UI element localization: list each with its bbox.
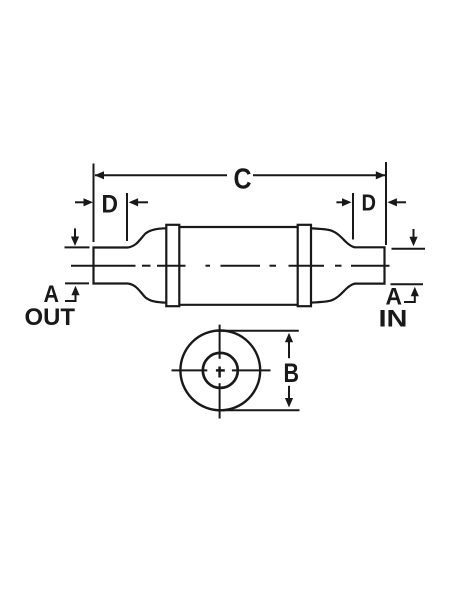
- B dimension lower segment with down arrow: [288, 386, 290, 401]
- front view inner circle (pipe): [203, 353, 238, 388]
- muffler left seam band: [166, 225, 179, 306]
- dimension D right: outside arrow pointing left: [394, 201, 406, 203]
- B bottom tangent line: [218, 409, 300, 411]
- muffler right end-cap cone bottom: [311, 284, 355, 303]
- dimension D left: outside arrow pointing right: [75, 201, 86, 203]
- A-out top extension line: [65, 246, 90, 248]
- A-in down arrow: [413, 229, 415, 240]
- svg-text:IN: IN: [379, 306, 408, 333]
- muffler body top line: [179, 226, 297, 228]
- dimension C arrow right: [376, 171, 386, 179]
- dimension D left: extension line: [126, 193, 128, 241]
- front view outer circle: [180, 331, 260, 411]
- centerline dash-dot of side view: [71, 265, 136, 267]
- dimension D left: outside arrow pointing left: [135, 201, 148, 203]
- front view vertical centerline: [219, 325, 221, 359]
- A-out bottom extension line: [65, 282, 89, 284]
- muffler left end-cap cone bottom: [128, 284, 166, 303]
- A-in bottom extension line: [391, 283, 424, 285]
- A-in top extension line: [392, 248, 426, 250]
- dimension C line right segment: [253, 174, 385, 176]
- muffler right seam band: [298, 225, 311, 306]
- A-in up arrow leader: [404, 293, 415, 302]
- muffler right pipe outline: [354, 247, 385, 283]
- front view horizontal centerline: [172, 369, 208, 371]
- A-out up arrow leader: [65, 292, 76, 301]
- dimension D right: extension line: [352, 193, 354, 240]
- muffler left end-cap cone top: [128, 228, 166, 247]
- muffler body bottom line: [179, 304, 297, 306]
- A-out down arrow: [74, 228, 76, 239]
- svg-text:OUT: OUT: [25, 304, 76, 331]
- B top tangent line: [218, 330, 299, 332]
- extension line right (C datum): [385, 162, 387, 245]
- muffler left pipe outline: [94, 248, 129, 284]
- svg-text:C: C: [234, 164, 252, 196]
- dimension C arrow left: [95, 171, 105, 179]
- svg-text:B: B: [284, 358, 300, 388]
- dimension D right: outside arrow pointing right: [336, 201, 345, 203]
- muffler right end-cap cone top: [311, 228, 355, 247]
- B dimension upper segment with up arrow: [288, 340, 290, 358]
- extension line left (C/D datum): [93, 164, 95, 243]
- dimension C line left segment: [95, 174, 227, 176]
- svg-text:D: D: [362, 190, 377, 216]
- svg-text:D: D: [102, 191, 119, 219]
